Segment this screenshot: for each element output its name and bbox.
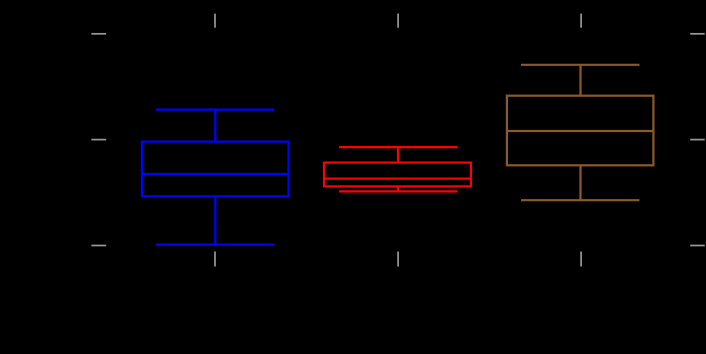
blue median [142,173,289,175]
x tick bottom 2 [397,252,399,267]
x tick top 2 [397,14,399,28]
blue upper whisker [214,110,216,142]
x tick top 3 [580,14,582,28]
red upper whisker [397,147,399,163]
red lower cap [339,190,457,192]
y tick right 1 [690,33,705,35]
x tick bottom 1 [214,252,216,267]
brown median [507,130,654,132]
y tick left 2 [91,139,106,141]
boxplot 1 blue [142,110,289,245]
red upper cap [339,146,457,148]
brown upper whisker [579,65,581,96]
brown lower cap [521,199,639,201]
blue lower cap [156,244,274,246]
y tick right 2 [690,139,705,141]
red box [324,163,471,187]
boxplot 3 brown [507,65,654,200]
y tick left 1 [91,33,106,35]
blue upper cap [156,108,274,110]
y tick right 3 [690,245,705,247]
x tick bottom 3 [580,252,582,267]
x tick top 1 [214,14,216,28]
boxplot 2 red [324,147,471,191]
brown upper cap [521,64,639,66]
blue box [142,142,289,197]
brown lower whisker [579,165,581,200]
brown box [507,96,654,166]
red lower whisker [397,186,399,191]
red median [324,178,471,180]
blue lower whisker [214,196,216,244]
y tick left 3 [91,245,106,247]
